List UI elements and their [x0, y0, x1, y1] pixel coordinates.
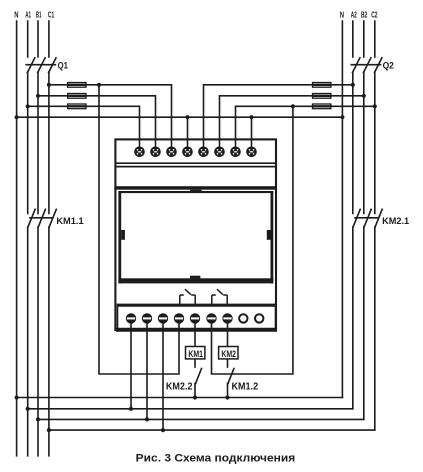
- svg-text:A1: A1: [25, 9, 31, 19]
- svg-text:KM1.1: KM1.1: [56, 216, 83, 226]
- svg-text:C1: C1: [48, 9, 54, 19]
- svg-text:B2: B2: [361, 9, 367, 19]
- svg-text:Q2: Q2: [383, 60, 394, 70]
- svg-text:Q1: Q1: [58, 60, 68, 70]
- svg-text:N: N: [340, 9, 344, 19]
- svg-text:N: N: [14, 9, 18, 19]
- svg-text:KM2.1: KM2.1: [382, 216, 409, 226]
- svg-text:A2: A2: [351, 9, 357, 19]
- svg-text:B1: B1: [36, 9, 42, 19]
- svg-text:KM1.2: KM1.2: [232, 381, 259, 392]
- svg-text:KM2: KM2: [221, 349, 236, 359]
- svg-text:C2: C2: [371, 9, 377, 19]
- svg-text:KM1: KM1: [188, 349, 203, 359]
- svg-text:Рис. 3 Схема подключения: Рис. 3 Схема подключения: [136, 453, 296, 465]
- svg-text:KM2.2: KM2.2: [166, 381, 193, 392]
